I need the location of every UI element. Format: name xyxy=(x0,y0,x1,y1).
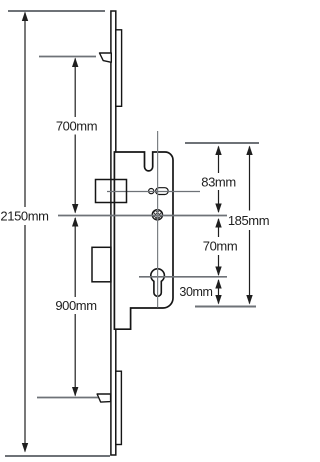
extension line: bottom of door (2150 ref) xyxy=(5,455,110,457)
spindle hub square xyxy=(96,180,127,203)
dimension 2150mm line xyxy=(24,13,26,452)
83 bottom arrowhead xyxy=(215,204,221,214)
2150 top arrowhead xyxy=(22,12,28,22)
extension line: case top (right side) xyxy=(185,142,259,144)
30 bottom arrowhead xyxy=(215,295,221,305)
900 bottom arrowhead xyxy=(72,387,78,397)
svg-text:70mm: 70mm xyxy=(203,239,238,254)
extension line: top of door (2150 ref) xyxy=(8,10,105,12)
extension line: handle centre (700/900 junction) xyxy=(58,215,227,217)
faceplate (long vertical strip) xyxy=(111,11,116,455)
extension line: case bottom (right side) xyxy=(195,306,256,308)
2150 bottom arrowhead xyxy=(22,443,28,453)
deadbolt block xyxy=(92,247,111,281)
bottom latch bolt xyxy=(97,394,111,402)
dimension 30mm line xyxy=(218,280,220,304)
dimension 83mm line xyxy=(218,147,220,213)
svg-text:2150mm: 2150mm xyxy=(0,209,48,224)
top latch bolt xyxy=(100,53,112,62)
connector line: spindle hub to slot (83 ref) xyxy=(107,191,200,193)
svg-text:30mm: 30mm xyxy=(179,285,212,299)
dimension 70mm line xyxy=(218,219,220,275)
185 bottom arrowhead xyxy=(246,295,252,305)
lock case (gearbox) outline xyxy=(114,152,173,329)
700 top arrowhead xyxy=(72,58,78,68)
70 bottom arrowhead xyxy=(215,267,221,277)
euro cylinder profile xyxy=(151,269,165,297)
dimension 900mm line xyxy=(74,218,76,396)
svg-text:700mm: 700mm xyxy=(56,119,97,134)
extension line: top latch (700 ref) xyxy=(39,56,96,58)
svg-text:83mm: 83mm xyxy=(201,175,236,190)
handle spindle slot: pill xyxy=(156,188,169,195)
top keep plate xyxy=(116,30,122,107)
83 top arrowhead xyxy=(215,146,221,156)
svg-text:900mm: 900mm xyxy=(55,298,96,313)
knurled screw head xyxy=(150,205,165,224)
dimension 700mm line xyxy=(74,59,76,213)
185 top arrowhead xyxy=(246,146,252,156)
700 bottom arrowhead xyxy=(72,204,78,214)
handle spindle slot: small circle xyxy=(149,189,154,194)
extension line: bottom latch (900 ref) xyxy=(37,397,98,399)
70 top arrowhead xyxy=(215,218,221,228)
900 top arrowhead xyxy=(72,217,78,227)
30 top arrowhead xyxy=(215,279,221,289)
centreline through lock components xyxy=(157,131,159,308)
bottom keep plate xyxy=(116,371,122,444)
dimension 185mm line xyxy=(249,147,251,304)
extension line: cylinder centre (right side) xyxy=(139,276,227,278)
svg-text:185mm: 185mm xyxy=(228,213,269,228)
